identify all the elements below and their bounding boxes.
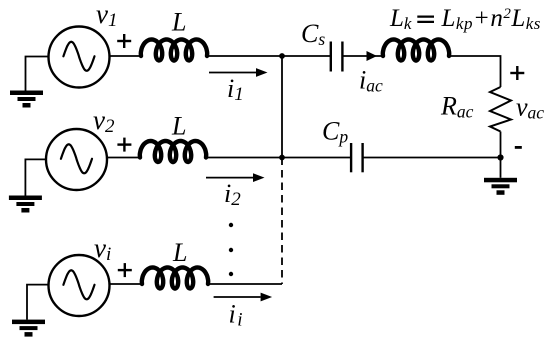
svg-text:L: L xyxy=(171,8,186,37)
svg-text:Cp: Cp xyxy=(322,117,348,147)
svg-text:i1: i1 xyxy=(227,74,244,105)
svg-text:L: L xyxy=(171,112,186,141)
svg-text:iac: iac xyxy=(359,66,383,96)
svg-text:vac: vac xyxy=(516,93,544,123)
svg-text:v1: v1 xyxy=(96,0,117,31)
svg-text:Lkp+n2Lks: Lkp+n2Lks xyxy=(441,5,541,33)
svg-text:vi: vi xyxy=(94,233,111,265)
svg-text:i2: i2 xyxy=(224,179,241,210)
svg-text:Rac: Rac xyxy=(440,92,474,122)
svg-text:Cs: Cs xyxy=(301,19,325,49)
svg-text:L: L xyxy=(172,238,187,267)
svg-text:ii: ii xyxy=(229,300,245,331)
svg-text:Lk: Lk xyxy=(389,5,412,33)
svg-text:v2: v2 xyxy=(93,105,115,137)
